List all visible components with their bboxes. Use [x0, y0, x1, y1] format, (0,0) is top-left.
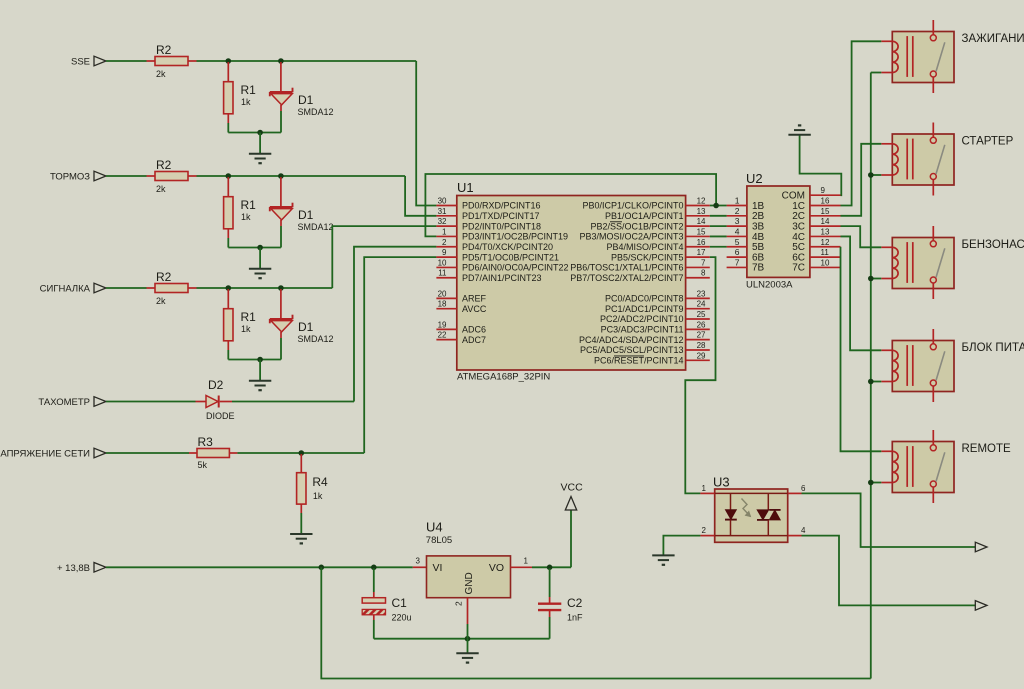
resistor R2 (СИГНАЛКА row): [147, 287, 156, 289]
IC U2 ULN2003A: [747, 186, 810, 277]
svg-text:14: 14: [821, 217, 830, 226]
U3 pin 2 stub: [700, 535, 714, 537]
wire U1 PB2 to U2 3B: [710, 225, 727, 227]
svg-text:6: 6: [735, 247, 740, 257]
ground U4: [467, 639, 469, 653]
svg-text:1: 1: [735, 196, 740, 206]
svg-text:PD3/INT1/OC2B/PCINT19: PD3/INT1/OC2B/PCINT19: [462, 232, 568, 242]
svg-text:SSE: SSE: [71, 57, 90, 68]
svg-text:28: 28: [697, 341, 706, 350]
wire R1 bottom (ТОРМОЗ row): [227, 238, 229, 248]
svg-text:5k: 5k: [198, 460, 208, 470]
svg-text:6: 6: [801, 484, 806, 493]
regulator U4 78L05: [413, 566, 427, 568]
svg-text:PB0/ICP1/CLKO/PCINT0: PB0/ICP1/CLKO/PCINT0: [582, 201, 683, 211]
svg-text:R3: R3: [198, 435, 214, 449]
resistor R3 5k: [189, 452, 197, 454]
wire input to R3: [106, 452, 189, 454]
U1 pin 30 PD0: [436, 205, 456, 207]
svg-text:D1: D1: [298, 208, 314, 222]
svg-text:25: 25: [697, 310, 706, 319]
wire U2 3C to relay RL3: [841, 226, 882, 247]
svg-text:29: 29: [697, 351, 706, 360]
wire U3 pin4 to output: [802, 536, 976, 606]
svg-text:PC1/ADC1/PCINT9: PC1/ADC1/PCINT9: [605, 304, 684, 314]
svg-text:PC2/ADC2/PCINT10: PC2/ADC2/PCINT10: [600, 314, 684, 324]
svg-text:10: 10: [821, 258, 830, 267]
wire R1 bottom (СИГНАЛКА row): [227, 350, 229, 360]
svg-text:9: 9: [821, 186, 826, 195]
svg-text:15: 15: [821, 207, 830, 216]
node junction relay coil rail: [868, 379, 874, 385]
svg-text:СИГНАЛКА: СИГНАЛКА: [40, 284, 91, 295]
svg-text:11: 11: [821, 248, 830, 257]
svg-text:PD1/TXD/PCINT17: PD1/TXD/PCINT17: [462, 211, 540, 221]
svg-text:R4: R4: [312, 475, 328, 489]
U1 pin 14 PB2: [686, 225, 710, 227]
svg-text:PD2/INT0/PCINT18: PD2/INT0/PCINT18: [462, 221, 541, 231]
resistor R1 (СИГНАЛКА row): [227, 289, 229, 309]
svg-text:БЕНЗОНАСОС: БЕНЗОНАСОС: [962, 239, 1024, 251]
svg-text:U1: U1: [457, 180, 474, 195]
node junction U4 GND: [465, 636, 471, 642]
U2 pin 1 1B: [727, 205, 747, 207]
wire СИГНАЛКА to R2: [106, 287, 147, 289]
node junction R1 (ТОРМОЗ row): [226, 173, 232, 179]
svg-text:SMDA12: SMDA12: [298, 107, 334, 117]
node junction D1 (ТОРМОЗ row): [278, 173, 284, 179]
wire U2 4C to relay RL4: [841, 236, 882, 350]
node junction R1 (SSE row): [226, 58, 232, 64]
U1 pin 25 PC2: [686, 318, 710, 320]
svg-text:AVCC: AVCC: [462, 304, 487, 314]
U1 pin 26 PC3: [686, 328, 710, 330]
diode D1 SMDA12 (СИГНАЛКА row): [280, 289, 282, 319]
U1 pin 23 PC0: [686, 297, 710, 299]
U2 pin 15 2C: [810, 215, 841, 217]
optocoupler U3: [715, 489, 788, 542]
svg-text:D1: D1: [298, 93, 314, 107]
svg-text:SMDA12: SMDA12: [298, 222, 334, 232]
U2 pin 11 6C: [810, 256, 841, 258]
svg-text:4: 4: [801, 526, 806, 535]
svg-text:1k: 1k: [313, 491, 323, 501]
ground U3: [652, 554, 674, 556]
svg-text:D2: D2: [208, 378, 224, 392]
svg-text:VCC: VCC: [561, 482, 584, 494]
svg-text:PB5/SCK/PCINT5: PB5/SCK/PCINT5: [611, 252, 684, 262]
svg-text:7B: 7B: [752, 263, 765, 274]
svg-text:2: 2: [735, 206, 740, 216]
svg-text:24: 24: [697, 300, 706, 309]
svg-text:15: 15: [697, 227, 706, 236]
svg-text:R2: R2: [156, 43, 172, 57]
U1 pin 15 PB3: [686, 235, 710, 237]
svg-text:PC0/ADC0/PCINT8: PC0/ADC0/PCINT8: [605, 294, 684, 304]
svg-text:PC6/RESET/PCINT14: PC6/RESET/PCINT14: [594, 356, 684, 366]
svg-text:R1: R1: [241, 198, 257, 212]
capacitor C2 1nF: [549, 568, 551, 597]
wire R4 to ground: [300, 513, 302, 534]
resistor R4 1k: [300, 454, 302, 473]
svg-text:PD6/AIN0/OC0A/PCINT22: PD6/AIN0/OC0A/PCINT22: [462, 263, 569, 273]
svg-text:1: 1: [524, 556, 529, 565]
wire SSE row horizontal: [197, 60, 417, 62]
diode D2 DIODE: [196, 401, 207, 403]
resistor R1 (SSE row): [227, 62, 229, 82]
diode D1 SMDA12 (ТОРМОЗ row): [280, 177, 282, 207]
wire U1 PB1 to U2 2B: [710, 215, 727, 217]
svg-text:PB4/MISO/PCINT4: PB4/MISO/PCINT4: [606, 242, 683, 252]
svg-text:D1: D1: [298, 320, 314, 334]
svg-text:U3: U3: [713, 475, 730, 490]
svg-text:2: 2: [442, 238, 447, 247]
node junction PB0/1B: [713, 203, 719, 209]
U1 pin 11 PD7: [436, 277, 456, 279]
svg-text:13: 13: [821, 227, 830, 236]
svg-text:БЛОК ПИТАНИЯ: БЛОК ПИТАНИЯ: [962, 342, 1024, 354]
wire D2 to U1 pin2 PD4: [232, 401, 354, 403]
relay RL4 БЛОК ПИТАНИЯ: [892, 341, 954, 392]
svg-text:PD7/AIN1/PCINT23: PD7/AIN1/PCINT23: [462, 273, 542, 283]
svg-text:7: 7: [735, 257, 740, 267]
svg-text:PB7/TOSC2/XTAL2/PCINT7: PB7/TOSC2/XTAL2/PCINT7: [570, 273, 683, 283]
svg-text:PC4/ADC4/SDA/PCINT12: PC4/ADC4/SDA/PCINT12: [579, 335, 684, 345]
U1 pin 19 ADC6: [436, 328, 456, 330]
svg-text:SMDA12: SMDA12: [298, 334, 334, 344]
ground (СИГНАЛКА row): [259, 360, 261, 381]
U2 pin 12 5C: [810, 246, 841, 248]
svg-text:PB1/OC1A/PCINT1: PB1/OC1A/PCINT1: [605, 211, 684, 221]
wire SSE to R2: [106, 60, 147, 62]
svg-text:1k: 1k: [241, 324, 251, 334]
node junction down-leg: [319, 565, 325, 571]
svg-text:ЗАЖИГАНИЕ: ЗАЖИГАНИЕ: [962, 33, 1024, 45]
wire U3 pin2 to ground: [663, 536, 700, 555]
IC U1 ATMEGA168P_32PIN: [457, 196, 686, 371]
svg-text:R2: R2: [156, 270, 172, 284]
U1 pin 17 PB5: [686, 256, 710, 258]
node junction relay coil rail: [868, 480, 874, 486]
wire U1 PB0 to U2 1B: [710, 205, 727, 207]
wire U2 1C to relay RL1: [841, 41, 882, 205]
svg-text:1nF: 1nF: [567, 613, 583, 623]
svg-text:7: 7: [701, 258, 706, 267]
svg-text:ATMEGA168P_32PIN: ATMEGA168P_32PIN: [457, 372, 550, 383]
svg-text:32: 32: [438, 217, 447, 226]
svg-text:11: 11: [438, 269, 447, 278]
svg-text:1: 1: [442, 227, 447, 236]
svg-text:ULN2003A: ULN2003A: [746, 280, 793, 291]
ground above U2 (inverted): [798, 124, 801, 126]
svg-text:3: 3: [416, 556, 421, 565]
svg-text:R1: R1: [241, 83, 257, 97]
svg-text:22: 22: [438, 331, 447, 340]
svg-text:PD5/T1/OC0B/PCINT21: PD5/T1/OC0B/PCINT21: [462, 252, 559, 262]
svg-text:2: 2: [702, 526, 707, 535]
U1 pin 13 PB1: [686, 215, 710, 217]
resistor R2 (ТОРМОЗ row): [147, 175, 156, 177]
relay RL2 СТАРТЕР: [892, 134, 954, 185]
wire D1 bottom (СИГНАЛКА row): [280, 338, 282, 360]
node junction ground (СИГНАЛКА row): [257, 357, 263, 363]
U1 pin 31 PD1: [436, 215, 456, 217]
node junction D1 (СИГНАЛКА row): [278, 285, 284, 291]
diode D1 SMDA12 (SSE row): [280, 62, 282, 92]
svg-text:PC3/ADC3/PCINT11: PC3/ADC3/PCINT11: [601, 325, 684, 335]
ground (SSE row): [259, 133, 261, 154]
U1 pin 12 PB0: [686, 205, 710, 207]
U4 pin 1 VO stub: [511, 566, 533, 568]
svg-text:DIODE: DIODE: [206, 411, 235, 421]
node junction C1: [371, 565, 377, 571]
wire U1 PB4 to U2 5B: [710, 246, 727, 248]
svg-text:8: 8: [701, 269, 706, 278]
svg-text:12: 12: [821, 238, 830, 247]
svg-text:R2: R2: [156, 158, 172, 172]
U1 pin 2 PD4: [436, 246, 456, 248]
U1 pin 9 PD5: [436, 256, 456, 258]
wire СИГНАЛКА row horizontal: [197, 287, 333, 289]
U1 pin 8 PB7: [686, 277, 710, 279]
output terminal upper: [975, 542, 987, 552]
wire net PD3 to PB0/1B: [425, 174, 716, 236]
svg-text:+ 13,8В: + 13,8В: [57, 563, 90, 574]
wire +13.8V down-leg to bottom rail: [321, 567, 871, 678]
U3 pin 6 stub: [788, 492, 802, 494]
power VCC arrow: [565, 497, 576, 511]
U2 pin 4 4B: [727, 235, 747, 237]
wire TORMOZ to U1 pin31: [405, 176, 436, 216]
svg-text:REMOTE: REMOTE: [962, 443, 1012, 455]
wire VO to VCC: [532, 566, 571, 568]
svg-text:PC5/ADC5/SCL/PCINT13: PC5/ADC5/SCL/PCINT13: [580, 345, 684, 355]
wire R1 bottom (SSE row): [227, 123, 229, 133]
svg-text:R1: R1: [241, 310, 257, 324]
svg-text:20: 20: [438, 289, 447, 298]
U3 internal arrow: [742, 499, 751, 517]
U2 pin 3 3B: [727, 225, 747, 227]
U2 pin 16 1C: [810, 205, 841, 207]
wire U2 2C to relay RL2: [841, 144, 882, 216]
svg-text:СТАРТЕР: СТАРТЕР: [962, 136, 1014, 148]
U2 pin 2 2B: [727, 215, 747, 217]
U1 pin 28 PC5: [686, 349, 710, 351]
U1 pin 18 AVCC: [436, 308, 456, 310]
capacitor C1 220u: [373, 568, 375, 592]
U3 internal triac: [767, 493, 769, 509]
svg-text:1k: 1k: [241, 97, 251, 107]
resistor R1 (ТОРМОЗ row): [227, 177, 229, 197]
U1 pin 22 ADC7: [436, 339, 456, 341]
svg-text:ADC6: ADC6: [462, 325, 486, 335]
wire U3 pin6 to output: [802, 493, 976, 547]
node junction relay coil rail: [868, 276, 874, 282]
U2 pin 9 COM: [810, 194, 841, 196]
svg-text:2k: 2k: [156, 184, 166, 194]
node junction R4: [299, 450, 305, 456]
U2 pin 10 7C: [810, 266, 841, 268]
wire R3 to U1 pin9 PD5: [237, 452, 364, 454]
svg-text:PD0/RXD/PCINT16: PD0/RXD/PCINT16: [462, 201, 541, 211]
U2 pin 7 7B: [727, 266, 747, 268]
U1 pin 32 PD2: [436, 225, 456, 227]
U1 pin 1 PD3: [436, 235, 456, 237]
svg-text:2k: 2k: [156, 69, 166, 79]
U3 internal LED: [715, 492, 788, 494]
U2 pin 14 3C: [810, 225, 841, 227]
svg-text:220u: 220u: [392, 613, 412, 623]
output terminal lower: [975, 601, 987, 611]
svg-text:5: 5: [735, 237, 740, 247]
svg-text:18: 18: [438, 300, 447, 309]
svg-text:НАПРЯЖЕНИЕ СЕТИ: НАПРЯЖЕНИЕ СЕТИ: [0, 449, 90, 460]
svg-text:78L05: 78L05: [426, 535, 452, 546]
relay RL1 ЗАЖИГАНИЕ: [892, 32, 954, 83]
U1 pin 27 PC4: [686, 339, 710, 341]
node junction D1 (SSE row): [278, 58, 284, 64]
relay RL3 БЕНЗОНАСОС: [892, 238, 954, 289]
svg-text:23: 23: [697, 289, 706, 298]
U1 pin 16 PB4: [686, 246, 710, 248]
svg-text:C2: C2: [567, 596, 583, 610]
node junction C2: [547, 565, 553, 571]
svg-text:10: 10: [438, 258, 447, 267]
U1 pin 20 AREF: [436, 297, 456, 299]
svg-text:9: 9: [442, 248, 447, 257]
U3 pin 4 stub: [788, 535, 802, 537]
svg-text:ТАХОМЕТР: ТАХОМЕТР: [38, 397, 90, 408]
ground (ТОРМОЗ row): [259, 248, 261, 269]
U2 pin 5 5B: [727, 246, 747, 248]
svg-text:31: 31: [438, 207, 447, 216]
svg-text:1: 1: [702, 484, 707, 493]
wire SIGNALKA to U1 pin32: [332, 226, 436, 288]
svg-text:7C: 7C: [792, 263, 805, 274]
svg-text:ADC7: ADC7: [462, 335, 486, 345]
svg-text:3: 3: [735, 216, 740, 226]
ground R4: [290, 533, 312, 535]
svg-text:U4: U4: [426, 520, 443, 535]
svg-text:PB6/TOSC1/XTAL1/PCINT6: PB6/TOSC1/XTAL1/PCINT6: [570, 263, 683, 273]
U2 pin 13 4C: [810, 235, 841, 237]
svg-text:PB2/SS/OC1B/PCINT2: PB2/SS/OC1B/PCINT2: [590, 221, 683, 231]
svg-text:27: 27: [697, 331, 706, 340]
node junction ground (ТОРМОЗ row): [257, 245, 263, 251]
svg-text:VI: VI: [433, 562, 443, 574]
wire D1 bottom (SSE row): [280, 111, 282, 133]
node junction R1 (СИГНАЛКА row): [226, 285, 232, 291]
svg-text:PB3/MOSI/OC2A/PCINT3: PB3/MOSI/OC2A/PCINT3: [579, 232, 683, 242]
svg-text:17: 17: [697, 248, 706, 257]
wire +13.8V rail: [106, 566, 413, 568]
wire U2 COM to ground: [800, 135, 842, 195]
svg-text:12: 12: [697, 197, 706, 206]
wire SSE to U1 pin30: [416, 61, 436, 206]
svg-text:GND: GND: [464, 572, 475, 594]
U4 pin 2 GND stub: [467, 598, 469, 624]
wire D1 bottom (ТОРМОЗ row): [280, 226, 282, 248]
wire +13.8V rail to relay coils: [870, 73, 872, 679]
svg-text:C1: C1: [392, 596, 408, 610]
U2 pin 6 6B: [727, 256, 747, 258]
relay RL5 REMOTE: [892, 442, 954, 493]
wire U1 PB3 to U2 4B: [710, 235, 727, 237]
svg-text:ТОРМОЗ: ТОРМОЗ: [50, 172, 90, 183]
svg-text:PD4/T0/XCK/PCINT20: PD4/T0/XCK/PCINT20: [462, 242, 553, 252]
svg-text:U2: U2: [746, 171, 763, 186]
wire U1 PB5 to U3 pin1: [685, 257, 715, 493]
node junction relay coil rail: [868, 172, 874, 178]
wire ТОРМОЗ to R2: [106, 175, 147, 177]
U1 pin 29 PC6: [686, 359, 710, 361]
svg-text:16: 16: [697, 238, 706, 247]
svg-text:13: 13: [697, 207, 706, 216]
svg-text:14: 14: [697, 217, 706, 226]
svg-text:30: 30: [438, 197, 447, 206]
U1 pin 24 PC1: [686, 308, 710, 310]
svg-text:2k: 2k: [156, 296, 166, 306]
wire VCC riser: [570, 510, 572, 567]
node junction ground (SSE row): [257, 130, 263, 136]
wire ground rail C1-C2: [374, 638, 550, 640]
wire U2 5C to relay RL5: [841, 247, 882, 452]
wire ТОРМОЗ row horizontal: [197, 175, 406, 177]
svg-text:1k: 1k: [241, 212, 251, 222]
svg-text:4: 4: [735, 226, 740, 236]
svg-text:VO: VO: [489, 562, 504, 574]
U3 pin 1 stub: [700, 492, 714, 494]
svg-text:2: 2: [454, 601, 464, 606]
resistor R2 (SSE row): [147, 60, 156, 62]
wire ТАХОМЕТР to D2: [106, 401, 196, 403]
svg-text:AREF: AREF: [462, 294, 487, 304]
U1 pin 7 PB6: [686, 266, 710, 268]
svg-text:16: 16: [821, 197, 830, 206]
svg-text:26: 26: [697, 320, 706, 329]
svg-text:19: 19: [438, 320, 447, 329]
U1 pin 10 PD6: [436, 266, 456, 268]
